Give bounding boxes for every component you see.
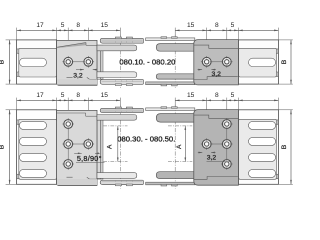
fork prong [156, 172, 195, 179]
dim arrow [88, 100, 92, 102]
left plate bevel flat [86, 115, 97, 117]
left plate chamfer wedge [57, 43, 86, 48]
dim arrow [227, 100, 231, 102]
left link outer bar [100, 38, 143, 43]
right end slot [249, 153, 276, 161]
left plate face line / 3,2 underline [67, 176, 73, 178]
left plate bottom edge [58, 184, 97, 186]
right pin plate body [194, 110, 239, 186]
lug tick [121, 79, 123, 81]
pin hole 68 [62, 56, 74, 68]
A reference line right [168, 161, 192, 163]
left end slot [19, 121, 46, 129]
latch lug right [161, 37, 167, 39]
extension line 5/8 [67, 98, 69, 120]
dim arrow [202, 100, 206, 102]
pin hole 207 [201, 56, 213, 68]
right end slot [249, 58, 276, 66]
left end slot [19, 153, 46, 161]
lug tick [114, 180, 116, 182]
extension line 15 right [206, 28, 208, 58]
extension line 8/15 [87, 98, 89, 120]
left wall strip 1 [97, 116, 101, 179]
3,2 arrow [93, 69, 97, 71]
dim arrow [17, 100, 21, 102]
B dim line right [290, 40, 292, 84]
lug tick [125, 111, 127, 113]
right end slot [249, 137, 276, 145]
left plate bevel flat [86, 44, 97, 46]
5,8 underline [76, 161, 105, 163]
svg-text:5: 5 [61, 22, 65, 29]
left link outer bar [100, 180, 143, 184]
B ext bottom left [6, 83, 17, 85]
lug tick [132, 41, 134, 43]
B arrow down right [290, 80, 292, 84]
pin hole [62, 138, 74, 150]
left link outer bar [100, 108, 143, 112]
A arrow down [184, 158, 186, 162]
left link inner crossbar [97, 115, 137, 121]
latch lug [126, 184, 132, 186]
fork prong [156, 74, 195, 79]
A dim line [184, 126, 186, 161]
left pin plate body [57, 110, 97, 185]
B dim line left [9, 110, 11, 184]
tongue tab bottom-left [17, 72, 19, 77]
dim arrow [68, 30, 72, 32]
left pin plate body [57, 40, 97, 85]
latch lug right [161, 184, 167, 186]
svg-text:8: 8 [76, 92, 80, 99]
5,8 dim line [74, 152, 82, 154]
extension line 5/8 [67, 28, 69, 58]
extension line 15 end right [174, 98, 176, 109]
outer bar inner line [102, 110, 143, 112]
lug tick [132, 180, 134, 182]
3,2 dim line [198, 152, 203, 154]
left plate bottom edge [58, 84, 97, 86]
svg-text:8: 8 [215, 22, 219, 29]
A reference line left [103, 125, 127, 127]
extension line 15 end right [174, 28, 176, 39]
A reference line right [168, 125, 192, 127]
3,2 dim line right [93, 69, 97, 71]
left link inner crossbar [97, 45, 137, 51]
dim arrow [116, 100, 120, 102]
A reference line left [103, 161, 127, 163]
left link bottom bars (mirrored) [97, 173, 143, 186]
left end slot [19, 58, 46, 66]
right plate top step line [194, 115, 239, 118]
dim arrow [238, 30, 242, 32]
dim arrow [223, 30, 227, 32]
dim arrow [64, 100, 68, 102]
svg-text:5,8/90°: 5,8/90° [77, 154, 102, 163]
right plate bottom step line [194, 77, 238, 80]
dim arrow [274, 30, 278, 32]
3,2 dim line right plate [198, 69, 203, 71]
latch lug right [172, 84, 178, 86]
hole column centerline left [67, 119, 69, 170]
B dim line right [290, 110, 292, 184]
latch lug right [172, 184, 178, 186]
left plate bevel step [85, 43, 87, 46]
svg-text:B: B [0, 59, 6, 64]
pin hole [62, 118, 74, 130]
extension line 5 right [237, 98, 239, 115]
B arrow up [9, 40, 11, 44]
extension line 15 right [206, 98, 208, 120]
right link end outer plate [238, 40, 278, 84]
dimension line left half [17, 99, 121, 101]
outer bar inner line [102, 40, 143, 42]
right plate bottom step line [194, 177, 238, 180]
B arrow down right [290, 180, 292, 184]
svg-text:A: A [106, 144, 113, 149]
fork prong [156, 114, 195, 123]
5,8 arrow [78, 152, 82, 154]
left end slot [19, 137, 46, 145]
dim arrow [17, 30, 21, 32]
dim arrow [68, 100, 72, 102]
extension line 17 left [16, 28, 18, 40]
3,2 arrow [198, 69, 202, 71]
dim arrow [116, 30, 120, 32]
dim arrow [238, 100, 242, 102]
dim arrow [57, 30, 61, 32]
left plate bottom band [57, 79, 97, 85]
3,2 arrow [211, 152, 215, 154]
right link thin bar [146, 182, 195, 185]
dim arrow [234, 100, 238, 102]
B ext top right [278, 109, 292, 111]
dim arrow [64, 30, 68, 32]
svg-text:15: 15 [187, 92, 195, 99]
left plate bevel step [85, 115, 87, 117]
pivot centerline left [119, 105, 121, 189]
lug tick [125, 180, 127, 182]
lug tick [132, 111, 134, 113]
latch lug right [161, 107, 167, 109]
left wall strip 2 [101, 45, 103, 79]
svg-text:15: 15 [101, 22, 109, 29]
latch lug [126, 37, 132, 39]
hole centerline right [202, 61, 233, 63]
B ext top right [278, 39, 292, 41]
dim arrow [175, 100, 179, 102]
3,2 dim line [211, 152, 216, 154]
5,8 arrow [95, 152, 99, 154]
left link outer bar [100, 79, 143, 84]
B ext bottom left [6, 183, 17, 185]
hole column centerline right [226, 119, 228, 170]
extension line 8 right [226, 28, 228, 58]
3,2 arrow [211, 69, 215, 71]
extension line 8/15 [87, 28, 89, 58]
lug tick [121, 180, 123, 182]
lug tick [114, 41, 116, 43]
right link end outer plate [238, 110, 278, 185]
3,2 dim line left [76, 69, 84, 71]
right link thin bar [146, 82, 195, 85]
A arrow up [184, 126, 186, 130]
tongue tab top-right [276, 120, 278, 125]
lug tick [121, 111, 123, 113]
right pin plate body [194, 40, 239, 85]
extension line 17/5 [56, 98, 58, 115]
3,2 arrow [80, 69, 84, 71]
svg-text:B: B [0, 144, 6, 149]
A arrow down [117, 158, 119, 162]
B ext bottom right [278, 183, 292, 185]
right link thin bar [146, 38, 195, 41]
svg-text:17: 17 [36, 92, 44, 99]
left end snap tongue [19, 48, 57, 77]
dim arrow [234, 30, 238, 32]
left link end outer plate [17, 40, 57, 84]
lug tick [121, 41, 123, 43]
hole centerline left [63, 61, 94, 63]
pivot centerline left [119, 35, 121, 88]
dimension line right half [175, 29, 278, 31]
tongue tab bottom-right [276, 174, 278, 179]
svg-text:B: B [281, 59, 288, 64]
dim arrow [227, 30, 231, 32]
dim arrow [52, 30, 56, 32]
right link thin bar [146, 108, 195, 111]
lug tick [125, 41, 127, 43]
extension line 15 end [119, 28, 121, 39]
left link end outer plate [17, 110, 57, 185]
left plate step [85, 113, 87, 116]
5,8 dim line right [95, 152, 100, 154]
dim arrow [57, 100, 61, 102]
svg-text:B: B [281, 144, 288, 149]
latch lug [115, 184, 121, 186]
pin hole [62, 158, 74, 170]
svg-text:17: 17 [36, 22, 44, 29]
latch lug right [172, 107, 178, 109]
pin hole [221, 138, 233, 150]
svg-text:A: A [176, 144, 183, 149]
left plate bottom band [57, 179, 97, 185]
B arrow up right [290, 110, 292, 114]
pin hole [221, 158, 233, 170]
B dim line left [9, 40, 11, 84]
outer bar inner line [102, 181, 143, 183]
latch lug [115, 37, 121, 39]
dim arrow [84, 100, 88, 102]
dim arrow [202, 30, 206, 32]
dim arrow [274, 100, 278, 102]
pin hole 227 [221, 56, 233, 68]
pin hole [83, 138, 95, 150]
left end snap tongue [19, 119, 57, 179]
latch lug [126, 107, 132, 109]
dim arrow [88, 30, 92, 32]
tongue tab top-right [276, 49, 278, 54]
3,2 arrow [199, 152, 203, 154]
tongue tab bottom-left [17, 174, 19, 179]
right end snap tongue [239, 48, 277, 77]
svg-text:15: 15 [101, 92, 109, 99]
svg-text:3,2: 3,2 [73, 72, 83, 79]
tongue tab top-left [17, 120, 19, 125]
lug tick [114, 79, 116, 81]
tongue tab bottom-right [276, 72, 278, 77]
B arrow up [9, 110, 11, 114]
left plate face step [87, 177, 90, 179]
svg-text:080.10. - 080.20: 080.10. - 080.20 [119, 57, 175, 66]
dim arrow [223, 100, 227, 102]
lug tick [125, 79, 127, 81]
pin hole [221, 118, 233, 130]
svg-text:3,2: 3,2 [211, 71, 221, 78]
dim arrow [207, 30, 211, 32]
outer bar inner line [102, 81, 143, 83]
hole row centerline right [202, 143, 233, 145]
svg-text:5: 5 [231, 92, 235, 99]
3,2 dim right [211, 69, 216, 71]
left plate bevel edge [57, 43, 86, 48]
extension line 17 left [16, 98, 18, 110]
B arrow up right [290, 40, 292, 44]
pivot centerline right [174, 35, 176, 88]
left plate face step [87, 77, 90, 79]
svg-text:5: 5 [231, 22, 235, 29]
left wall strip 1 [97, 45, 101, 79]
latch lug right [161, 84, 167, 86]
tongue tab top-left [17, 49, 19, 54]
extension line 17 right [277, 98, 279, 110]
dimension line left half [17, 29, 121, 31]
extension line 17/5 [56, 28, 58, 45]
extension line 15 end [119, 98, 121, 109]
pivot centerline right [174, 105, 176, 189]
left link inner crossbar [97, 173, 137, 179]
latch lug [115, 107, 121, 109]
B ext top left [6, 109, 17, 111]
A arrow up [117, 126, 119, 130]
latch lug [126, 84, 132, 86]
left end slot [19, 169, 46, 177]
dim arrow [207, 100, 211, 102]
lug tick [132, 79, 134, 81]
svg-text:5: 5 [61, 92, 65, 99]
right end slot [249, 121, 276, 129]
left plate face line b [90, 178, 98, 180]
dim arrow [175, 30, 179, 32]
pin hole [201, 138, 213, 150]
svg-text:080.30. - 080.50.: 080.30. - 080.50. [117, 135, 175, 144]
A dim line [117, 126, 119, 161]
svg-text:3,2: 3,2 [207, 155, 217, 162]
3,2 underline right [207, 161, 231, 163]
left link inner crossbar [97, 72, 137, 78]
B ext bottom right [278, 83, 292, 85]
left link bottom bars (mirrored) [97, 72, 143, 86]
left plate face line b [90, 78, 98, 80]
hole row centerline left [63, 143, 94, 145]
svg-text:15: 15 [187, 22, 195, 29]
dim arrow [84, 30, 88, 32]
B arrow down [9, 180, 11, 184]
right end snap tongue [239, 119, 277, 179]
latch lug right [172, 37, 178, 39]
pin hole 88 [83, 56, 95, 68]
B ext top left [6, 39, 17, 41]
svg-text:8: 8 [76, 22, 80, 29]
extension line 8 right [226, 98, 228, 120]
B arrow down [9, 80, 11, 84]
dim arrow [52, 100, 56, 102]
left plate face line / 3,2 underline [67, 76, 73, 78]
fork prong [156, 44, 195, 52]
left plate top step line [57, 112, 86, 114]
latch lug [115, 84, 121, 86]
left wall strip 2 [101, 116, 103, 179]
lug tick [114, 111, 116, 113]
right plate top step line [194, 45, 239, 48]
extension line 5 right [237, 28, 239, 45]
svg-text:8: 8 [215, 92, 219, 99]
extension line 17 right [277, 28, 279, 40]
dimension line right half [175, 99, 278, 101]
right end slot [249, 169, 276, 177]
